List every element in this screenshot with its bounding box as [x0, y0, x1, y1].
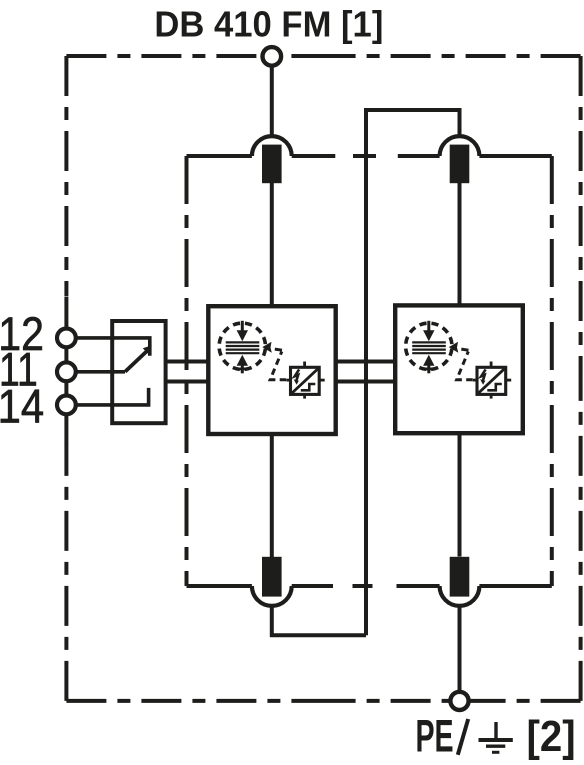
svg-text:14: 14 — [0, 381, 44, 433]
svg-text:PE: PE — [416, 711, 454, 761]
svg-text:DB 410 FM [1]: DB 410 FM [1] — [154, 4, 383, 45]
svg-text:[2]: [2] — [527, 712, 576, 761]
